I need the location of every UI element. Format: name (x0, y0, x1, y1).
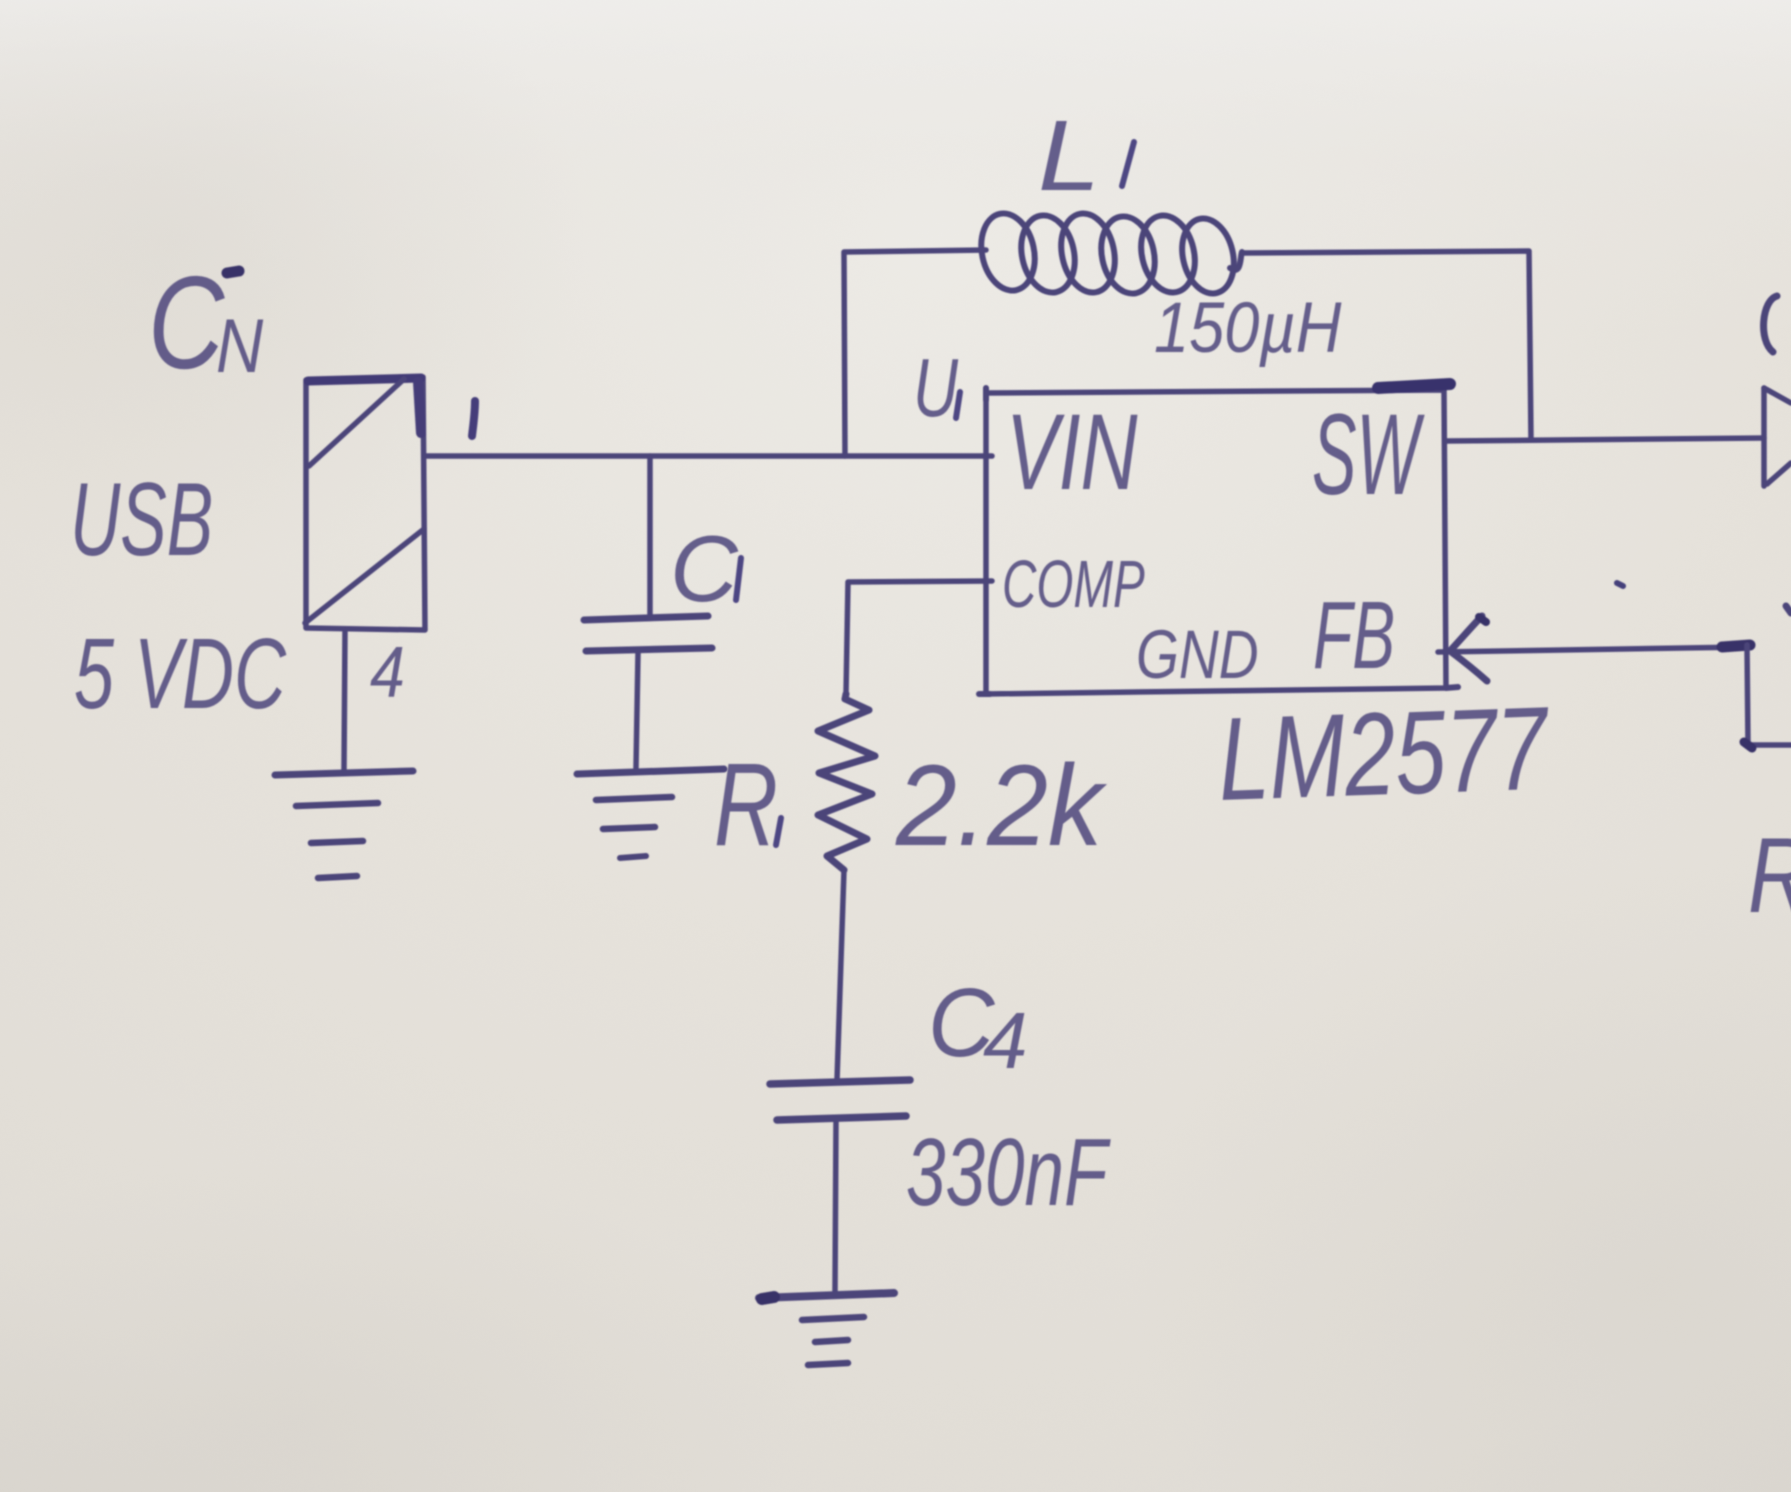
ground (C1) (577, 769, 724, 858)
label CN pen blob (227, 271, 239, 273)
svg-text:VIN: VIN (1006, 392, 1138, 513)
capacitor C4 (770, 1080, 910, 1120)
svg-text:R: R (714, 740, 778, 871)
svg-text:USB: USB (70, 461, 213, 577)
capacitor C1 (584, 616, 712, 651)
ink speck (1617, 583, 1623, 586)
wire SW output (1446, 438, 1764, 441)
diode D1 partial (1764, 388, 1791, 486)
ground (USB) (275, 771, 413, 878)
small numeral ticks (227, 142, 1134, 845)
label R1 tick 1 (776, 818, 781, 845)
svg-text:N: N (216, 304, 264, 389)
label C1 tick 1 (736, 558, 741, 600)
FB arrowhead (1450, 616, 1487, 681)
svg-text:L: L (1038, 101, 1100, 212)
wire VIN net (425, 453, 992, 459)
label U1 tick 1 (956, 392, 960, 418)
svg-text:C: C (148, 250, 225, 397)
svg-text:4: 4 (370, 633, 405, 713)
wire L1 right leg (1242, 251, 1531, 440)
ground (C4) (759, 1293, 894, 1365)
label L1 tick 1 (1122, 142, 1134, 186)
svg-text:SW: SW (1312, 390, 1425, 518)
resistor R1 (818, 694, 875, 870)
wire COMP (846, 581, 992, 694)
svg-text:FB: FB (1313, 582, 1395, 689)
pin 1 tick (472, 401, 475, 436)
IC U1 box (979, 384, 1458, 694)
svg-text:C: C (670, 516, 739, 621)
svg-text:LM2577: LM2577 (1216, 683, 1552, 826)
wire R1 to C4 (837, 870, 844, 1080)
svg-text:330nF: 330nF (906, 1119, 1111, 1226)
wire L1 left leg (844, 250, 986, 456)
svg-text:4: 4 (983, 996, 1028, 1085)
connector slash upper (309, 379, 404, 466)
connector CN USB body (306, 377, 425, 630)
svg-text:R: R (1748, 815, 1791, 935)
inductor L1 coil (974, 208, 1242, 298)
wire C1 tap (647, 456, 653, 614)
wire FB net (1438, 606, 1791, 748)
wire C4 to ground (835, 1122, 836, 1292)
svg-text:COMP: COMP (1002, 547, 1145, 622)
svg-text:150µH: 150µH (1154, 289, 1342, 368)
pin 4 wire (344, 630, 345, 770)
label D partial (1764, 296, 1777, 352)
svg-text:5 VDC: 5 VDC (74, 618, 287, 729)
wire C1 to ground (636, 653, 638, 768)
svg-text:2.2k: 2.2k (895, 740, 1107, 869)
connector slash lower (305, 529, 424, 623)
svg-text:U: U (913, 341, 959, 434)
svg-text:GND: GND (1136, 616, 1259, 693)
